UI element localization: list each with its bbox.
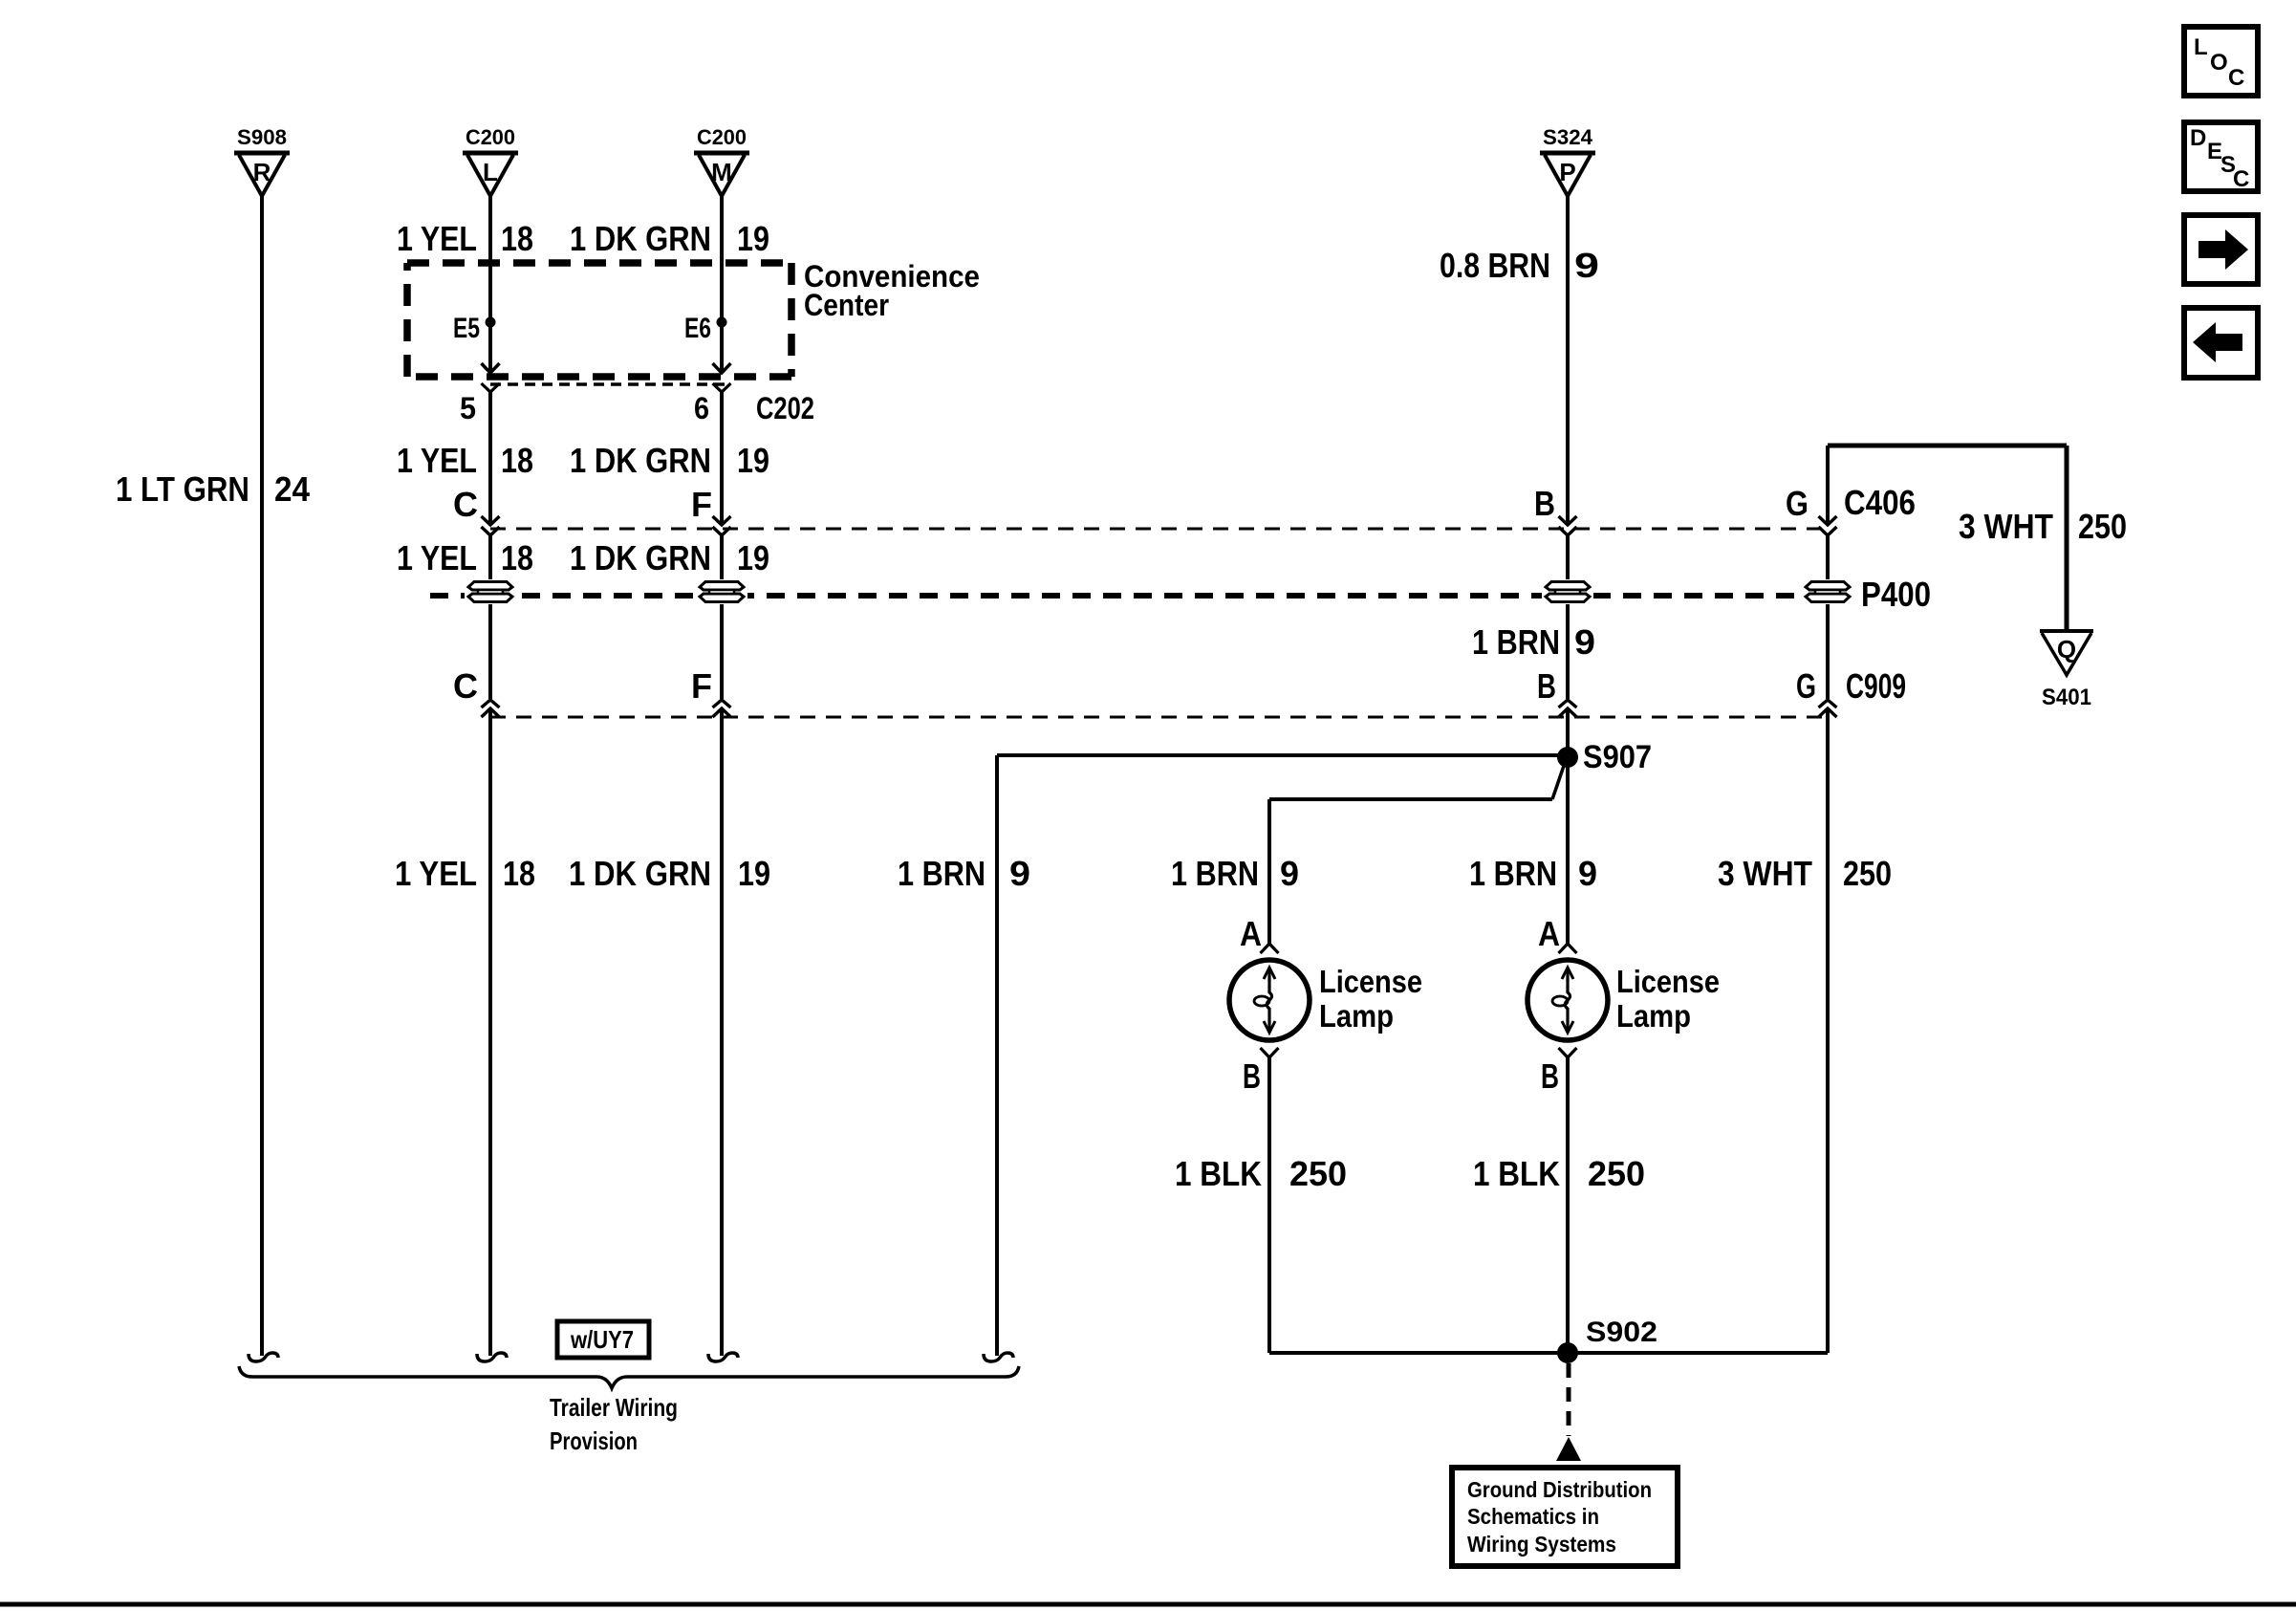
wire P below C909 to lamp2 bbox=[1566, 708, 1570, 945]
svg-text:9: 9 bbox=[1009, 854, 1030, 893]
wire S907 branch to lamp1 bbox=[1269, 797, 1552, 801]
terminal chevron lamp1 B bbox=[1261, 1048, 1279, 1057]
svg-text:18: 18 bbox=[501, 441, 533, 480]
reference arrowhead bbox=[1556, 1437, 1581, 1461]
terminal chevrons L at C406 bbox=[482, 516, 500, 525]
svg-text:1 LT GRN: 1 LT GRN bbox=[116, 469, 249, 509]
svg-text:Q: Q bbox=[2057, 635, 2076, 664]
terminal chevrons L at C909 bbox=[482, 700, 500, 708]
svg-text:F: F bbox=[691, 485, 712, 524]
svg-text:B: B bbox=[1243, 1056, 1261, 1096]
svg-text:C200: C200 bbox=[466, 125, 515, 149]
connector C909 dashed line bbox=[490, 716, 1828, 719]
svg-text:1 DK GRN: 1 DK GRN bbox=[570, 219, 711, 258]
connector C202 dashed line bbox=[490, 382, 730, 386]
wire hook BR bbox=[984, 1353, 1013, 1361]
svg-text:1 DK GRN: 1 DK GRN bbox=[570, 538, 711, 577]
svg-text:0.8 BRN: 0.8 BRN bbox=[1440, 246, 1550, 285]
w/UY7 option box bbox=[557, 1321, 649, 1358]
svg-text:L: L bbox=[2194, 34, 2208, 60]
wire M below C202 bbox=[720, 392, 724, 525]
ground wire S902 horizontal bbox=[1269, 1351, 1828, 1355]
svg-text:D: D bbox=[2190, 125, 2206, 151]
ground reference Q triangle bbox=[2040, 629, 2093, 633]
svg-text:C: C bbox=[453, 485, 478, 524]
Ground Distribution reference box bbox=[1452, 1468, 1678, 1566]
svg-text:18: 18 bbox=[501, 538, 533, 577]
pass-through connector P400 at P bbox=[1542, 579, 1593, 604]
wire M below C909 bbox=[720, 708, 724, 1356]
svg-text:9: 9 bbox=[1280, 854, 1299, 893]
svg-text:9: 9 bbox=[1574, 246, 1599, 285]
svg-text:Lamp: Lamp bbox=[1319, 998, 1394, 1034]
svg-text:C909: C909 bbox=[1846, 666, 1906, 706]
wire lamp2 to S902 bbox=[1566, 1057, 1570, 1353]
wire M between C406 and P400 bbox=[720, 535, 724, 580]
svg-text:250: 250 bbox=[1289, 1154, 1347, 1193]
svg-text:Provision: Provision bbox=[550, 1426, 638, 1455]
wire S907 branch horizontal bbox=[997, 753, 1568, 757]
svg-text:E5: E5 bbox=[453, 313, 480, 344]
svg-text:18: 18 bbox=[501, 219, 533, 258]
arrow M wire into C202 bbox=[713, 363, 731, 373]
svg-text:1 BLK: 1 BLK bbox=[1175, 1154, 1262, 1193]
svg-text:1 YEL: 1 YEL bbox=[397, 538, 477, 577]
svg-text:C202: C202 bbox=[756, 391, 814, 425]
terminal chevrons M at C909 bbox=[713, 700, 731, 708]
wire M C200 to convenience center bbox=[720, 196, 724, 372]
wire P S324 down to C406 bbox=[1566, 196, 1570, 525]
svg-text:19: 19 bbox=[737, 219, 769, 258]
svg-text:19: 19 bbox=[738, 854, 770, 893]
connector C200 triangle L bbox=[463, 151, 518, 156]
svg-text:C: C bbox=[453, 666, 478, 706]
top-right LOC navigation box bbox=[2184, 27, 2258, 96]
terminal chevron M at C202 bbox=[713, 383, 731, 392]
wire M below P400 bbox=[720, 604, 724, 699]
svg-text:C406: C406 bbox=[1844, 483, 1916, 522]
wire L C200 to convenience center bbox=[488, 196, 492, 372]
dashed reference wire below S902 bbox=[1567, 1363, 1571, 1436]
svg-text:Lamp: Lamp bbox=[1616, 998, 1691, 1034]
svg-text:S907: S907 bbox=[1583, 739, 1652, 775]
wire hook L bbox=[477, 1353, 507, 1361]
connector C200 triangle M bbox=[694, 151, 749, 156]
svg-text:Trailer Wiring: Trailer Wiring bbox=[550, 1393, 678, 1422]
svg-text:C: C bbox=[2228, 65, 2244, 91]
svg-text:Wiring Systems: Wiring Systems bbox=[1467, 1532, 1616, 1557]
arrow L wire into C202 bbox=[482, 363, 500, 373]
svg-text:250: 250 bbox=[1843, 854, 1892, 893]
svg-text:9: 9 bbox=[1574, 622, 1595, 662]
svg-text:19: 19 bbox=[737, 441, 769, 480]
top-right next-page arrow box bbox=[2184, 215, 2258, 284]
wire lamp1 to S902 bbox=[1267, 1057, 1271, 1353]
wire L below C202 bbox=[488, 392, 492, 525]
wire BR vertical bbox=[995, 755, 999, 1356]
svg-text:S902: S902 bbox=[1586, 1317, 1657, 1348]
svg-text:License: License bbox=[1319, 964, 1422, 999]
svg-text:w/UY7: w/UY7 bbox=[570, 1325, 634, 1354]
svg-text:6: 6 bbox=[694, 391, 709, 425]
page footer rule bbox=[0, 1602, 2296, 1607]
pass-through connector P400 at L bbox=[465, 579, 516, 604]
splice S907 dot bbox=[1557, 747, 1578, 768]
pass-through connector P400 at M bbox=[696, 579, 747, 604]
svg-text:License: License bbox=[1616, 964, 1720, 999]
wire G below P400 bbox=[1826, 604, 1830, 699]
terminal chevrons G at C406 bbox=[1819, 516, 1837, 525]
svg-text:19: 19 bbox=[737, 538, 769, 577]
svg-text:Ground Distribution: Ground Distribution bbox=[1467, 1477, 1652, 1502]
svg-text:O: O bbox=[2210, 50, 2228, 76]
terminal chevron lamp1 A bbox=[1261, 944, 1279, 953]
svg-text:F: F bbox=[691, 666, 712, 706]
svg-text:P: P bbox=[1559, 158, 1575, 186]
svg-text:B: B bbox=[1534, 484, 1555, 523]
svg-text:5: 5 bbox=[460, 391, 476, 425]
terminal chevron L at C202 bbox=[482, 383, 500, 392]
svg-text:A: A bbox=[1240, 914, 1262, 953]
svg-text:S401: S401 bbox=[2042, 685, 2091, 710]
wire lamp1 vertical upper bbox=[1267, 799, 1271, 945]
svg-text:1 DK GRN: 1 DK GRN bbox=[569, 854, 711, 893]
svg-text:C: C bbox=[2233, 166, 2249, 192]
node E5 dot bbox=[486, 317, 496, 328]
svg-text:B: B bbox=[1541, 1056, 1559, 1096]
svg-text:1 BRN: 1 BRN bbox=[1472, 622, 1560, 662]
top-right DESC navigation box bbox=[2184, 122, 2258, 191]
wire hook M bbox=[708, 1353, 738, 1361]
svg-text:E6: E6 bbox=[684, 313, 711, 344]
trailer wiring provision brace bbox=[239, 1366, 1019, 1388]
terminal chevrons P at C909 bbox=[1559, 700, 1577, 708]
pass-through connector P400 at G bbox=[1802, 579, 1853, 604]
svg-text:G: G bbox=[1796, 666, 1816, 706]
splice reference S908 triangle R bbox=[234, 151, 290, 156]
svg-text:3 WHT: 3 WHT bbox=[1959, 507, 2053, 546]
splice S902 dot bbox=[1557, 1342, 1578, 1363]
svg-text:1 BRN: 1 BRN bbox=[1469, 854, 1557, 893]
svg-text:1 BRN: 1 BRN bbox=[1171, 854, 1259, 893]
svg-text:1 YEL: 1 YEL bbox=[395, 854, 477, 893]
connector C406 dashed line bbox=[490, 528, 1828, 531]
wire hook R bbox=[249, 1353, 278, 1361]
wire P below P400 bbox=[1566, 604, 1570, 699]
svg-text:Center: Center bbox=[804, 288, 889, 322]
terminal chevron lamp2 A bbox=[1559, 944, 1577, 953]
connector P400 dashed line bbox=[430, 593, 1828, 599]
svg-text:1 DK GRN: 1 DK GRN bbox=[570, 441, 711, 480]
svg-text:L: L bbox=[483, 158, 498, 186]
svg-text:S908: S908 bbox=[237, 125, 287, 149]
svg-text:250: 250 bbox=[1588, 1154, 1645, 1193]
wire S908 R vertical bbox=[260, 196, 264, 1356]
top-right previous-page arrow box bbox=[2184, 308, 2258, 378]
svg-text:A: A bbox=[1538, 914, 1560, 953]
svg-text:1 YEL: 1 YEL bbox=[397, 219, 477, 258]
terminal chevrons P at C406 bbox=[1559, 516, 1577, 525]
svg-text:3 WHT: 3 WHT bbox=[1718, 854, 1812, 893]
wire 3 WHT vertical bbox=[2065, 446, 2069, 630]
svg-text:24: 24 bbox=[274, 469, 310, 509]
svg-text:250: 250 bbox=[2078, 507, 2127, 546]
svg-text:1 BLK: 1 BLK bbox=[1473, 1154, 1560, 1193]
wire P between C406 and P400 bbox=[1566, 535, 1570, 580]
svg-text:1 YEL: 1 YEL bbox=[397, 441, 477, 480]
wire G corner from top loop bbox=[1826, 446, 1830, 525]
wire G below C909 to S902 bbox=[1826, 708, 1830, 1353]
top loop horizontal wire bbox=[1828, 444, 2067, 448]
node E6 dot bbox=[717, 317, 727, 328]
svg-text:1 BRN: 1 BRN bbox=[898, 854, 986, 893]
svg-text:G: G bbox=[1786, 484, 1809, 523]
terminal chevron lamp2 B bbox=[1559, 1048, 1577, 1057]
svg-text:P400: P400 bbox=[1861, 575, 1931, 614]
svg-text:C200: C200 bbox=[697, 125, 747, 149]
svg-text:9: 9 bbox=[1578, 854, 1597, 893]
license lamp 2 bbox=[1527, 960, 1608, 1040]
wire L between C406 and P400 bbox=[488, 535, 492, 580]
terminal chevrons M at C406 bbox=[713, 516, 731, 525]
wire L below P400 bbox=[488, 604, 492, 699]
splice reference S324 triangle P bbox=[1540, 151, 1595, 156]
svg-text:S324: S324 bbox=[1543, 125, 1593, 149]
svg-text:M: M bbox=[711, 158, 732, 186]
wire G between C406 and P400 bbox=[1826, 535, 1830, 580]
wire L below C909 bbox=[488, 708, 492, 1356]
convenience center dashed box bbox=[407, 259, 791, 267]
license lamp 1 bbox=[1229, 960, 1310, 1040]
terminal chevrons G at C909 bbox=[1819, 700, 1837, 708]
wire S907 diagonal jog bbox=[1552, 763, 1565, 799]
svg-text:18: 18 bbox=[503, 854, 535, 893]
svg-text:R: R bbox=[253, 158, 271, 186]
svg-text:B: B bbox=[1537, 666, 1556, 706]
svg-text:Schematics in: Schematics in bbox=[1467, 1504, 1599, 1529]
